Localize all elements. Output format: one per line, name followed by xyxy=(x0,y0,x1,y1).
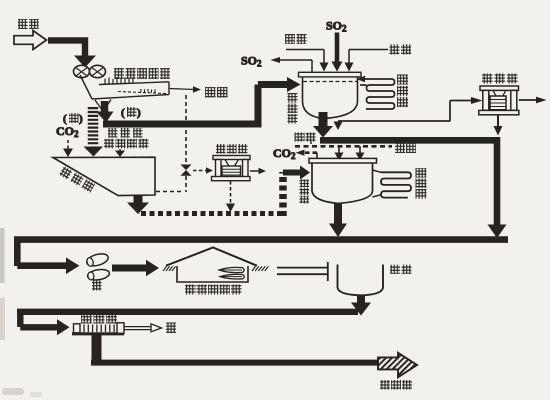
filter bottom outlet thick xyxy=(92,335,102,360)
crusher body: hopper and destemmer drum xyxy=(80,75,92,99)
label: 葡萄酒 xyxy=(380,380,412,390)
wire: SO2 escape from fermenter 1 top xyxy=(280,60,312,72)
fermenter 2 rim xyxy=(309,158,377,163)
svg-text:): ) xyxy=(137,107,141,119)
label: 过滤机 xyxy=(81,315,117,324)
wire: striped column (white juice) from hopper spout xyxy=(88,107,99,146)
arrowhead: coil into fermenter 1 xyxy=(357,76,366,82)
label: 酒母 1 xyxy=(390,45,412,55)
settling tank outlet arrow xyxy=(134,196,143,203)
wire: thick dashed riser up to fermenter 2 xyxy=(279,172,287,216)
press 2 output arrow (right) xyxy=(519,99,536,101)
arrows: feeds down into fermenter 2 xyxy=(339,146,360,153)
wire: dashed line from drum down to valve xyxy=(185,95,187,163)
wire: collect line 2 (y=312) xyxy=(17,311,358,327)
svg-text:): ) xyxy=(79,113,83,125)
press machine 2 body xyxy=(480,86,519,90)
wire: fermented mash to press 2 xyxy=(338,101,471,122)
wire: dashed CO2 into settling tank xyxy=(67,140,69,149)
label: 果梗 (stems) xyxy=(205,87,228,98)
settling tank 流下槽 xyxy=(53,157,155,195)
cooler coil 1 xyxy=(365,79,395,109)
ground hatching right of cellar xyxy=(252,266,268,271)
arrowhead: striped column into settling tank xyxy=(84,147,104,157)
fermenter 2 bottom thick arrow xyxy=(334,203,342,224)
wire: yeast feed into fermenter 1 xyxy=(349,50,388,64)
arrow: to filter xyxy=(20,324,57,330)
label: 发酵槽 1 (vertical) xyxy=(288,93,298,124)
storage tank outlet arrow xyxy=(357,295,365,303)
label: 砂糖 2 xyxy=(295,133,316,142)
label: 发酵槽 2 (vertical) xyxy=(300,180,310,204)
fermenter 2 body xyxy=(312,163,373,204)
ground hatching left of cellar xyxy=(163,266,176,271)
wire: dashed below valve xyxy=(185,176,187,192)
wire: dashed feed line over fermenter 2 xyxy=(295,145,392,148)
label: 压榨机 2 xyxy=(482,74,518,84)
wire: dashed from settling tank right edge to valve line xyxy=(156,191,184,193)
filter residue pipe and open arrow to 渣 xyxy=(124,327,151,330)
wire: SO2 thick feed into fermenter 1 xyxy=(335,33,340,63)
fermenter 1 liquid level dashed xyxy=(303,81,357,83)
label: 贮槽 xyxy=(390,265,412,274)
hatched open arrow: final wine xyxy=(378,353,417,377)
label: 果胶质 / 分解酵素 (pectin enzyme) xyxy=(104,128,149,148)
wire: thick dashed line (white must) to riser xyxy=(141,211,283,216)
open arrow: grapes input xyxy=(14,31,47,50)
wire: thick line fermenter 1 out, right and down xyxy=(320,137,497,225)
label: 冷却器 1 (vertical) xyxy=(397,75,408,108)
storage tank 贮槽 xyxy=(338,265,384,296)
label: 渣 xyxy=(166,323,176,334)
label: 冷却器 2 (vertical) xyxy=(416,168,427,199)
label: 地下贮藏库 xyxy=(185,285,242,295)
filter machine xyxy=(72,332,124,335)
label: 破碎除梗机 (crusher-destemmer) xyxy=(114,68,170,79)
label: 砂糖 1 xyxy=(285,34,307,44)
fermenter 1 body xyxy=(303,77,358,119)
crusher comb ticks xyxy=(105,77,133,84)
wire: collect line 1 (y=239) full width xyxy=(14,236,508,243)
barrels 桶 xyxy=(85,252,109,268)
press 1 output arrow xyxy=(250,170,259,172)
pipe: cellar to storage tank xyxy=(277,262,328,281)
press machine 压榨机 1 : input dashed arrow xyxy=(193,170,206,172)
arrow: barrels to cellar xyxy=(112,265,146,272)
wire: enzyme feed arrow into settling tank xyxy=(119,149,121,151)
wire: thick red line to fermenter 1 xyxy=(103,85,288,128)
label: 葡萄 (grapes) xyxy=(18,19,39,29)
wire: sugar feed line into fermenter 1 xyxy=(286,50,324,64)
barrels inside cellar xyxy=(219,267,244,272)
wire: thick line from grapes arrow, right then down xyxy=(48,37,85,57)
wire: final line 3 to wine xyxy=(91,360,378,366)
press 2 bottom outlet down xyxy=(497,115,499,126)
press 1 body xyxy=(213,156,250,160)
arrowhead: into fermenter 1 xyxy=(287,77,301,92)
wire: left corner down xyxy=(14,237,21,266)
valve V1 xyxy=(181,165,192,176)
arrowhead: to 果梗 xyxy=(193,86,201,93)
red path: thick arrow from spout down xyxy=(101,101,109,113)
wire: stems out of drum xyxy=(169,89,194,90)
press 1 bottom dashed outlet xyxy=(230,181,232,203)
cooler coil 2 connection xyxy=(373,170,382,197)
label: 桶 xyxy=(92,281,102,291)
arrow: to barrels xyxy=(17,262,66,269)
label: 流下槽 (rotated) xyxy=(59,166,95,193)
cooler coil 2 xyxy=(381,172,411,197)
cellar house 地下贮藏库 xyxy=(177,266,248,282)
crusher rollers xyxy=(74,65,90,77)
label: 酒母 2 xyxy=(395,144,416,154)
crusher inner screen (dashed) with ticks xyxy=(118,92,166,94)
fermenter 1 bottom thick arrow xyxy=(319,112,328,127)
arrowhead: into crusher xyxy=(74,56,96,68)
feed arrow into fermenter 2 xyxy=(283,170,300,176)
scan artifact: left edge smudge xyxy=(0,228,5,283)
svg-text:(: ( xyxy=(121,107,125,119)
label: 压榨机 1 xyxy=(216,144,248,154)
wire: CO2 out of fermenter 2 (dashed, left arrow) xyxy=(304,151,317,154)
arrowhead: down onto collect line xyxy=(488,225,507,239)
fermenter 1 rim xyxy=(299,72,362,77)
